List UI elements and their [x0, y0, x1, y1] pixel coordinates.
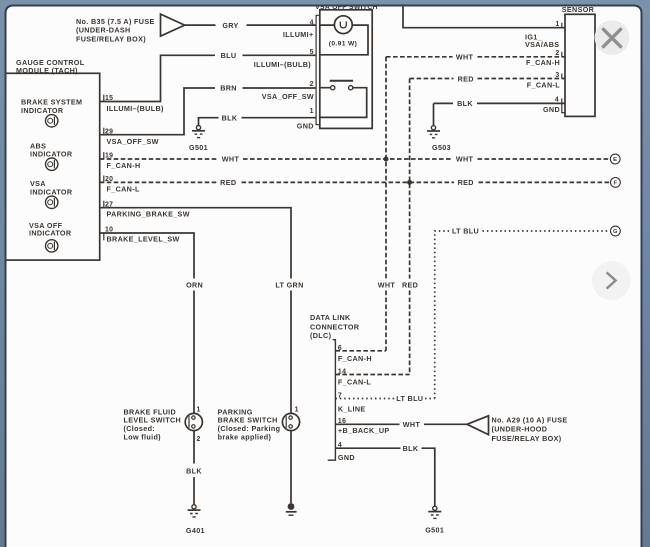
svg-text:PARKING_BRAKE_SW: PARKING_BRAKE_SW	[107, 210, 190, 219]
svg-text:GND: GND	[543, 105, 560, 114]
svg-text:1: 1	[295, 407, 299, 414]
gauge control module box	[5, 73, 100, 260]
sensor connector ticks	[562, 23, 565, 113]
svg-text:5: 5	[310, 49, 314, 56]
svg-text:14: 14	[338, 369, 346, 376]
svg-text:G503: G503	[432, 143, 451, 152]
svg-text:VSA_OFF_SW: VSA_OFF_SW	[262, 92, 314, 101]
svg-text:RED: RED	[458, 74, 474, 83]
wire pin10 ORN	[100, 233, 194, 414]
LT BLU dotted to G	[435, 231, 611, 399]
ground G503 riser	[433, 103, 435, 125]
svg-text:No. B35 (7.5 A) FUSE: No. B35 (7.5 A) FUSE	[76, 17, 155, 26]
DLC bracket	[328, 340, 336, 461]
DLC pin numbers	[338, 345, 346, 449]
svg-text:BLU: BLU	[221, 51, 237, 60]
connector circle G	[611, 226, 621, 236]
wire BLK pin1 switch gnd	[199, 118, 317, 126]
svg-text:CONNECTOR: CONNECTOR	[310, 322, 360, 331]
svg-text:3: 3	[555, 72, 559, 79]
svg-text:F: F	[613, 181, 617, 187]
wire pin27 LT GRN	[100, 208, 291, 414]
svg-text:FUSE/RELAY BOX): FUSE/RELAY BOX)	[76, 34, 146, 43]
indicator bulb: ABS	[46, 158, 58, 170]
wire BLU pin5 / from pin15	[100, 55, 316, 101]
svg-text:ILLUMI–(BULB): ILLUMI–(BULB)	[254, 60, 312, 69]
switch pin numbers	[310, 19, 314, 115]
svg-text:E: E	[613, 157, 617, 163]
svg-text:F_CAN-H: F_CAN-H	[338, 354, 372, 363]
svg-text:No. A29 (10 A) FUSE: No. A29 (10 A) FUSE	[492, 416, 568, 425]
ground G503	[427, 126, 440, 138]
svg-text:ILLUMI+: ILLUMI+	[283, 30, 314, 39]
indicator bulb: brake system	[46, 115, 58, 127]
svg-text:G501: G501	[189, 143, 208, 152]
bulb wiring loop	[320, 25, 368, 55]
ground G501 (DLC)	[428, 506, 441, 518]
svg-text:INDICATOR: INDICATOR	[30, 188, 73, 197]
switch contacts	[331, 86, 335, 90]
svg-text:2: 2	[555, 50, 559, 57]
junction dot RED	[407, 180, 412, 185]
svg-text:1: 1	[197, 407, 201, 414]
module pin numbers	[105, 95, 113, 234]
svg-text:Low fluid): Low fluid)	[124, 432, 162, 441]
svg-text:G: G	[613, 229, 618, 235]
svg-text:(UNDER-DASH: (UNDER-DASH	[76, 26, 131, 35]
switch pin labels	[254, 30, 314, 130]
connector circle F	[611, 178, 621, 188]
svg-text:1: 1	[310, 108, 314, 115]
svg-text:4: 4	[555, 97, 559, 104]
svg-text:RED: RED	[220, 178, 236, 187]
connector letters E F G	[613, 157, 618, 235]
svg-text:BLK: BLK	[457, 99, 473, 108]
svg-text:INDICATOR: INDICATOR	[30, 149, 73, 158]
svg-text:BLK: BLK	[403, 444, 419, 453]
svg-text:VSA/ABS: VSA/ABS	[525, 40, 559, 49]
svg-text:2: 2	[197, 436, 201, 443]
bulb filament	[340, 22, 346, 29]
svg-text:4: 4	[338, 442, 342, 449]
fuse A29 triangle	[467, 416, 489, 435]
switch inner contacts	[189, 416, 195, 428]
svg-text:(DLC): (DLC)	[310, 331, 332, 340]
svg-text:BLK: BLK	[186, 466, 202, 475]
svg-text:6: 6	[338, 345, 342, 352]
svg-text:+B_BACK_UP: +B_BACK_UP	[338, 426, 390, 435]
switch inner contacts	[286, 416, 292, 428]
svg-text:WHT: WHT	[222, 155, 240, 164]
sensor box	[565, 14, 595, 116]
svg-text:WHT: WHT	[456, 52, 474, 61]
next button	[592, 261, 631, 300]
svg-text:F_CAN-L: F_CAN-L	[338, 377, 371, 386]
brake fluid level switch	[185, 413, 202, 430]
DLC K_LINE dotted	[335, 398, 434, 400]
junction dot WHT	[384, 157, 389, 162]
svg-text:G401: G401	[186, 526, 205, 535]
bulb lamp in switch	[334, 16, 352, 34]
svg-text:ORN: ORN	[186, 281, 203, 290]
wire below parking switch	[290, 431, 292, 504]
fluid switch pin numbers	[197, 407, 201, 443]
svg-text:15: 15	[105, 95, 113, 102]
sensor F_CAN-H dashed WHT	[386, 56, 565, 58]
svg-text:LT BLU: LT BLU	[452, 227, 479, 236]
parking brake switch	[282, 413, 299, 430]
indicator bulb: VSA OFF	[46, 240, 58, 252]
module pin ticks	[103, 95, 105, 241]
connector circle E	[610, 154, 620, 164]
svg-text:19: 19	[105, 153, 113, 160]
svg-text:MODULE (TACH): MODULE (TACH)	[16, 66, 78, 75]
svg-text:F_CAN-L: F_CAN-L	[107, 185, 140, 194]
svg-text:brake applied): brake applied)	[218, 432, 272, 441]
svg-text:ILLUMI–(BULB): ILLUMI–(BULB)	[107, 104, 165, 113]
svg-text:BRN: BRN	[220, 84, 237, 93]
svg-text:GND: GND	[297, 121, 314, 130]
sensor GND wire BLK	[434, 102, 566, 104]
svg-text:(UNDER-HOOD: (UNDER-HOOD	[492, 425, 548, 434]
svg-text:10: 10	[105, 227, 113, 234]
svg-text:27: 27	[105, 201, 113, 208]
svg-text:LT BLU: LT BLU	[396, 394, 423, 403]
svg-text:2: 2	[310, 81, 314, 88]
svg-text:INDICATOR: INDICATOR	[21, 106, 64, 115]
svg-text:RED: RED	[402, 280, 418, 289]
DLC F_CAN-L dashed	[335, 374, 409, 376]
svg-text:DATA LINK: DATA LINK	[310, 313, 351, 322]
vertical RED dashed branch	[409, 79, 411, 375]
DLC F_CAN-H dashed	[335, 350, 386, 352]
svg-text:(0.91 W): (0.91 W)	[329, 40, 357, 47]
svg-text:BRAKE_LEVEL_SW: BRAKE_LEVEL_SW	[107, 235, 180, 244]
wire GRY pin4	[185, 24, 317, 26]
svg-text:1: 1	[555, 21, 559, 28]
ground G401	[188, 505, 201, 517]
vertical WHT dashed branch	[385, 57, 387, 351]
svg-text:29: 29	[105, 129, 113, 136]
svg-text:16: 16	[338, 418, 346, 425]
svg-text:BLK: BLK	[222, 113, 238, 122]
svg-text:WHT: WHT	[378, 280, 396, 289]
svg-text:WHT: WHT	[456, 155, 474, 164]
svg-text:INDICATOR: INDICATOR	[29, 229, 72, 238]
switch contact bar	[330, 80, 353, 82]
VSA OFF switch box	[320, 10, 372, 129]
switch wiring loop	[320, 88, 367, 118]
svg-text:LT GRN: LT GRN	[275, 281, 303, 290]
svg-text:GRY: GRY	[222, 21, 238, 30]
svg-text:WHT: WHT	[403, 420, 421, 429]
svg-text:RED: RED	[458, 178, 474, 187]
svg-text:K_LINE: K_LINE	[338, 405, 366, 414]
ground G501 (switch)	[192, 126, 205, 138]
sensor F_CAN-L dashed RED	[410, 78, 565, 80]
wire BRN pin2 / from pin29	[100, 88, 316, 135]
svg-text:F_CAN-H: F_CAN-H	[526, 58, 560, 67]
F_CAN-L bus dashed (module pin20 to F)	[100, 181, 611, 183]
svg-text:G501: G501	[425, 525, 444, 534]
svg-text:VSA_OFF_SW: VSA_OFF_SW	[107, 137, 159, 146]
wire below fluid switch BLK	[193, 431, 195, 505]
wire IG1 from top	[403, 6, 565, 28]
svg-text:FUSE/RELAY BOX): FUSE/RELAY BOX)	[492, 434, 562, 443]
VSA OFF switch connector bracket	[316, 15, 320, 124]
indicator bulb: VSA	[46, 196, 58, 208]
svg-text:GND: GND	[338, 453, 355, 462]
svg-text:F_CAN-H: F_CAN-H	[107, 161, 141, 170]
svg-text:F_CAN-L: F_CAN-L	[527, 81, 560, 90]
chassis ground (parking)	[286, 503, 297, 515]
fuse B35 triangle	[161, 14, 185, 36]
svg-text:4: 4	[310, 19, 314, 26]
svg-text:20: 20	[105, 176, 113, 183]
DLC GND wire BLK	[335, 448, 434, 506]
F_CAN-H bus dashed (module pin19 to E)	[100, 158, 611, 160]
close button	[595, 20, 630, 55]
sensor pin numbers	[555, 21, 560, 104]
svg-text:7: 7	[338, 393, 342, 400]
DLC +B_BACK_UP wire WHT	[335, 423, 467, 425]
